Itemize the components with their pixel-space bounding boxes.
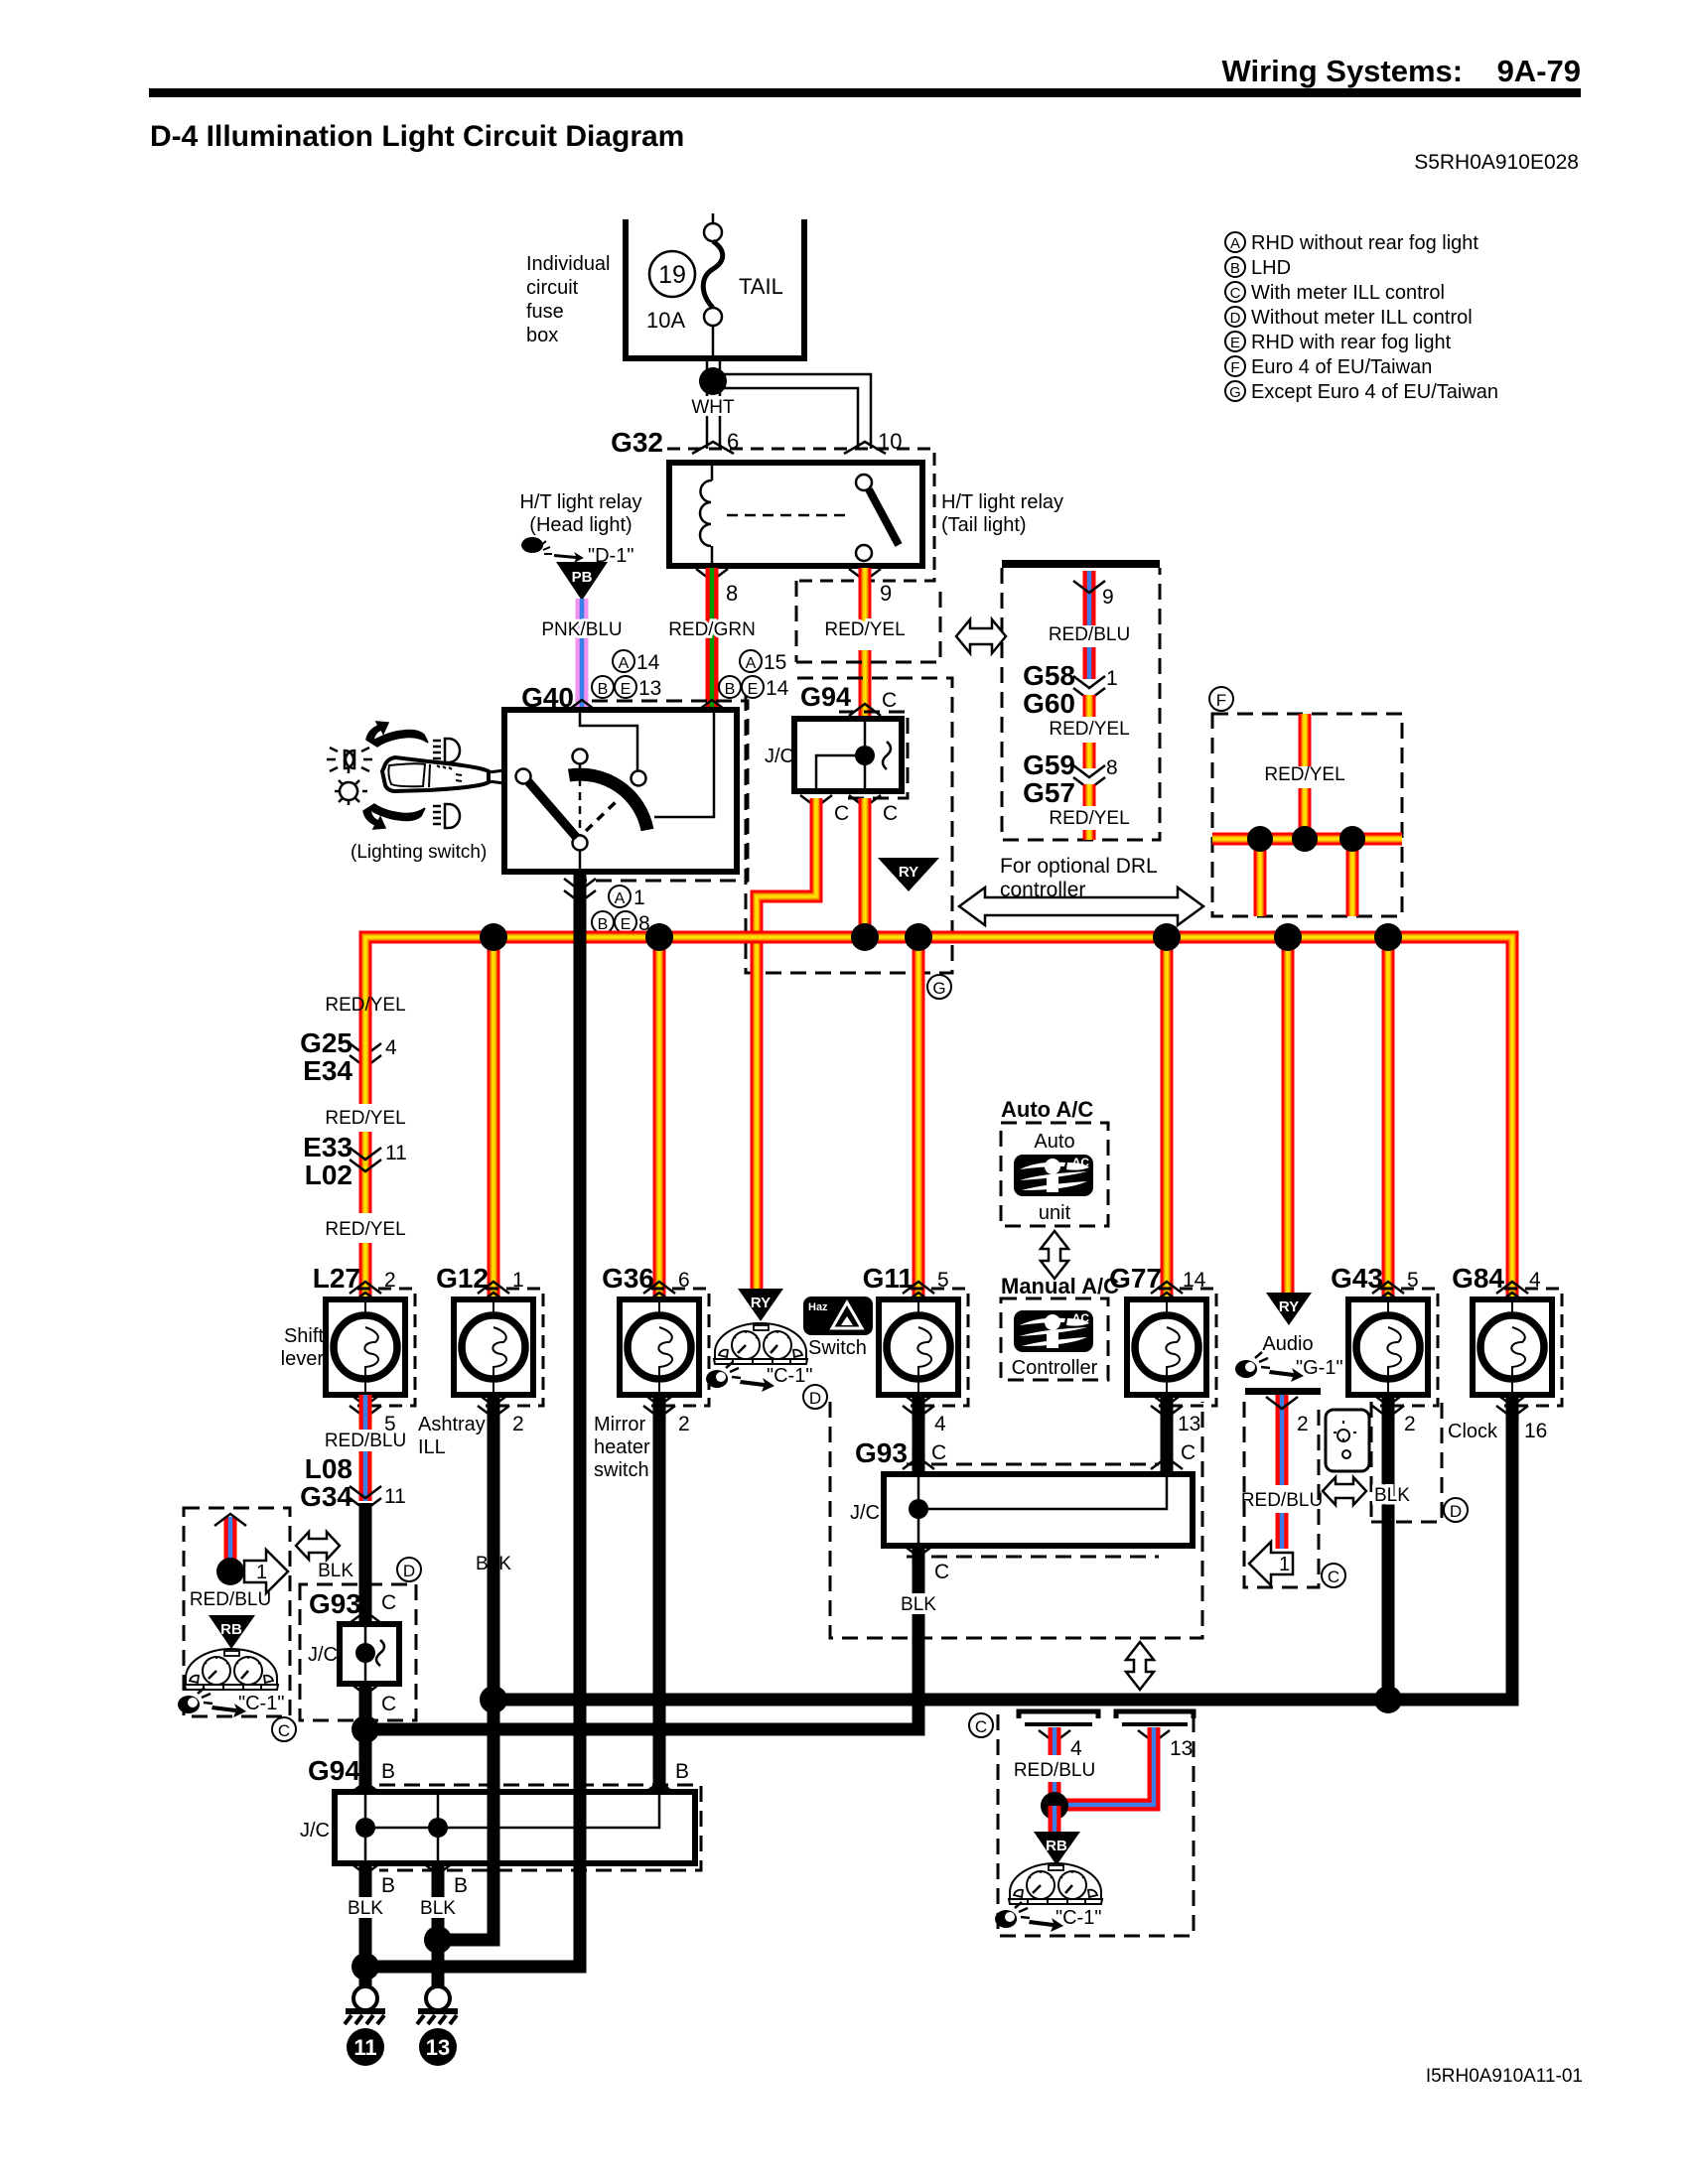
svg-text:E: E <box>1230 335 1240 351</box>
svg-text:13: 13 <box>638 677 661 700</box>
RY triangle meter feed <box>738 1289 783 1321</box>
svg-text:"C-1": "C-1" <box>1055 1907 1101 1929</box>
bus drop to G43 <box>1382 937 1395 1300</box>
svg-text:RED/BLU: RED/BLU <box>325 1431 406 1451</box>
svg-text:RHD without rear fog light: RHD without rear fog light <box>1251 232 1478 254</box>
ground number 13 <box>419 2028 457 2066</box>
svg-text:Manual A/C: Manual A/C <box>1001 1274 1119 1298</box>
wire BLK below G36 into G94 J/C <box>653 1395 666 1795</box>
svg-text:I5RH0A910A11-01: I5RH0A910A11-01 <box>1426 2066 1583 2087</box>
headlight icon top <box>433 739 460 762</box>
svg-text:RY: RY <box>751 1295 771 1311</box>
svg-text:RB: RB <box>220 1621 242 1638</box>
sun icon <box>335 768 367 805</box>
svg-text:RED/BLU: RED/BLU <box>190 1589 271 1610</box>
svg-text:16: 16 <box>1524 1420 1547 1442</box>
arrow relay area to DRL <box>956 619 1006 653</box>
junction dot WHT node <box>699 367 727 395</box>
bus 2 dot <box>352 1715 379 1743</box>
BLK label <box>897 1593 941 1614</box>
svg-text:G93: G93 <box>855 1437 908 1468</box>
G40 contact bottom <box>573 836 588 851</box>
svg-text:RED/YEL: RED/YEL <box>1049 719 1129 740</box>
svg-text:E34: E34 <box>303 1055 352 1086</box>
svg-text:C: C <box>1181 1441 1196 1464</box>
svg-text:H/T light relay: H/T light relay <box>519 491 641 513</box>
wire BLK G12 crossing G94 J/C <box>488 1786 500 1869</box>
svg-text:LHD: LHD <box>1251 257 1291 279</box>
svg-text:11: 11 <box>353 2035 376 2060</box>
svg-text:G32: G32 <box>611 427 663 458</box>
G40 contact top <box>573 750 588 764</box>
BLK label right <box>416 1897 461 1918</box>
svg-text:RB: RB <box>1046 1838 1067 1854</box>
svg-text:"G-1": "G-1" <box>1296 1357 1343 1379</box>
wire BLK below G77 <box>1161 1395 1174 1477</box>
svg-text:Euro 4 of EU/Taiwan: Euro 4 of EU/Taiwan <box>1251 356 1432 378</box>
connector variant labels A15 B E14 <box>740 650 762 672</box>
svg-text:RED/YEL: RED/YEL <box>1049 808 1129 829</box>
svg-text:Switch: Switch <box>808 1337 867 1359</box>
G94 bottom output chevrons <box>350 1862 381 1874</box>
svg-text:14: 14 <box>766 677 789 700</box>
svg-text:4: 4 <box>934 1413 946 1435</box>
svg-text:Shift: Shift <box>284 1325 324 1347</box>
junction dot G12/G94 <box>424 1926 452 1954</box>
svg-text:1: 1 <box>1106 667 1118 690</box>
wire BLK below G84 to bus corner <box>1489 1395 1512 1700</box>
svg-text:BLK: BLK <box>348 1898 383 1919</box>
svg-text:PNK/BLU: PNK/BLU <box>541 619 622 640</box>
G93 left output chevron <box>350 1683 381 1695</box>
svg-text:L27: L27 <box>313 1263 360 1294</box>
svg-text:unit: unit <box>1039 1202 1071 1224</box>
ground symbol 11 <box>345 1986 385 2024</box>
svg-text:E: E <box>621 681 632 698</box>
svg-text:G59: G59 <box>1023 750 1075 780</box>
svg-text:B: B <box>454 1874 468 1897</box>
circled D node <box>397 1558 421 1581</box>
svg-text:"C-1": "C-1" <box>767 1365 812 1387</box>
bus wire <box>365 937 1512 1299</box>
top arrow <box>366 722 428 747</box>
svg-text:14: 14 <box>636 651 660 674</box>
svg-text:switch: switch <box>594 1459 649 1481</box>
ground symbol 13 <box>417 1986 458 2024</box>
ground number 11 <box>347 2028 384 2066</box>
G93 left dashed box <box>300 1584 416 1720</box>
svg-text:A: A <box>1230 235 1240 252</box>
svg-text:8: 8 <box>726 581 738 606</box>
svg-text:19: 19 <box>658 261 686 289</box>
pin 6 <box>692 442 734 454</box>
svg-text:RHD with rear fog light: RHD with rear fog light <box>1251 332 1452 353</box>
G94 J/C solid box <box>794 719 902 791</box>
G40 connector chevrons <box>566 700 598 712</box>
svg-text:C: C <box>934 1561 949 1583</box>
svg-text:C: C <box>975 1717 987 1736</box>
svg-text:box: box <box>526 325 558 346</box>
circled C node <box>1322 1564 1345 1587</box>
G94 internal wires <box>816 719 865 791</box>
svg-text:G60: G60 <box>1023 688 1075 719</box>
hazard switch icon <box>803 1297 873 1335</box>
vertical arrow <box>1041 1231 1068 1279</box>
svg-text:C: C <box>931 1441 946 1464</box>
svg-text:RED/BLU: RED/BLU <box>1049 624 1130 645</box>
svg-text:J/C: J/C <box>850 1502 880 1524</box>
wire BLK L08 down to G93 <box>359 1503 372 1624</box>
G40 track arc <box>569 774 647 830</box>
fuse number circle 19 <box>649 251 695 297</box>
G94 bottom J/C solid box <box>335 1792 695 1863</box>
lighting switch stalk icon <box>327 722 504 829</box>
BLK label G12 wire <box>472 1553 516 1573</box>
svg-text:For optional DRL: For optional DRL <box>1000 855 1158 878</box>
svg-text:L08: L08 <box>305 1453 352 1484</box>
svg-text:C: C <box>882 689 897 712</box>
DRL thick top bar <box>1002 560 1160 568</box>
svg-text:8: 8 <box>1106 756 1118 779</box>
svg-text:F: F <box>1230 359 1239 376</box>
bus drop to G12 <box>488 937 500 1299</box>
eye symbol C-1 <box>706 1362 774 1392</box>
legend G <box>1225 381 1245 401</box>
svg-text:2: 2 <box>678 1413 690 1435</box>
svg-text:C: C <box>381 1591 396 1614</box>
G40 output chevrons <box>564 879 596 890</box>
bus 1 black <box>493 1694 1512 1706</box>
svg-text:J/C: J/C <box>300 1820 330 1842</box>
svg-text:ILL: ILL <box>418 1436 446 1458</box>
svg-text:Clock: Clock <box>1448 1421 1498 1442</box>
G40 internal wiring <box>580 713 637 770</box>
G94 dashed box <box>839 712 908 798</box>
wire BLK G94 right output to ground <box>432 1863 445 1986</box>
connector variant labels B E8 <box>592 911 614 933</box>
svg-text:G43: G43 <box>1331 1263 1383 1294</box>
G93 mid dashed offsets <box>907 1463 1159 1466</box>
G94 bottom internal wires <box>365 1792 659 1863</box>
wire G94 left output jog <box>757 798 816 1289</box>
svg-text:(Head light): (Head light) <box>529 514 632 536</box>
svg-text:Without meter ILL control: Without meter ILL control <box>1251 307 1473 329</box>
wire segment into L27 <box>359 1243 372 1299</box>
svg-text:BLK: BLK <box>901 1594 936 1615</box>
svg-text:J/C: J/C <box>308 1644 338 1666</box>
svg-text:C: C <box>1328 1568 1339 1586</box>
svg-text:S5RH0A910E028: S5RH0A910E028 <box>1414 151 1579 174</box>
pin 10 <box>844 442 886 454</box>
svg-text:G93: G93 <box>309 1588 361 1619</box>
svg-text:E: E <box>621 916 632 933</box>
F junction dots <box>1247 826 1273 852</box>
svg-text:2: 2 <box>1297 1413 1309 1435</box>
svg-text:RED/BLU: RED/BLU <box>1241 1490 1323 1511</box>
svg-text:A: A <box>746 655 757 672</box>
wire BLK below G12 <box>488 1395 500 1940</box>
svg-text:Auto: Auto <box>1034 1131 1074 1153</box>
parking light icon <box>327 748 372 771</box>
svg-text:A: A <box>615 890 626 907</box>
svg-text:1: 1 <box>256 1562 267 1583</box>
instrument cluster icon <box>714 1323 807 1364</box>
legend B <box>1225 257 1245 277</box>
dashed box around wire 9 <box>796 581 940 662</box>
meter C dashed box <box>184 1508 290 1716</box>
wire into G59 G57 <box>1083 743 1096 768</box>
svg-text:4: 4 <box>1070 1737 1082 1760</box>
wire PNK/BLU <box>576 599 589 717</box>
junction dot <box>216 1558 244 1585</box>
svg-text:2: 2 <box>1404 1413 1416 1435</box>
G40 wiper <box>526 779 577 838</box>
junction dot G40/G94 <box>352 1953 379 1980</box>
RB triangle <box>1034 1832 1080 1865</box>
G94 bottom junction dots <box>355 1818 375 1838</box>
svg-text:(Tail light): (Tail light) <box>941 514 1027 536</box>
svg-text:C: C <box>834 802 849 825</box>
svg-text:9: 9 <box>1102 586 1114 609</box>
wire to RB <box>1049 1806 1061 1834</box>
wire BLK G12 drop corner <box>438 1395 493 1940</box>
svg-text:G84: G84 <box>1452 1263 1504 1294</box>
svg-text:D: D <box>1230 310 1241 327</box>
svg-text:fuse: fuse <box>526 301 564 323</box>
svg-text:G94: G94 <box>800 682 851 712</box>
eye symbol C-1 <box>178 1688 246 1717</box>
eye symbol G-1 <box>1235 1352 1304 1382</box>
wire segment <box>359 1132 372 1213</box>
G93 mid output chevron <box>903 1545 934 1557</box>
legend A <box>1225 232 1498 403</box>
svg-text:B: B <box>1230 260 1240 277</box>
svg-text:G11: G11 <box>863 1263 914 1294</box>
svg-text:BLK: BLK <box>318 1561 353 1581</box>
svg-text:1: 1 <box>633 887 645 909</box>
circled D node <box>1444 1498 1468 1522</box>
svg-text:Except Euro 4 of EU/Taiwan: Except Euro 4 of EU/Taiwan <box>1251 381 1498 403</box>
stalk body <box>382 757 489 791</box>
svg-text:B: B <box>725 681 736 698</box>
relay switch <box>856 475 872 490</box>
F drop wires <box>1254 839 1267 916</box>
audio bottom bar <box>1245 1388 1321 1395</box>
circled F node <box>1209 687 1233 711</box>
G(G) variant dashed box <box>746 678 952 973</box>
wire RED/BLU from audio <box>1276 1395 1289 1485</box>
svg-text:11: 11 <box>384 1485 406 1508</box>
vertical arrow between box and bus <box>1126 1642 1154 1690</box>
G93 left junction dot <box>355 1643 375 1663</box>
eye symbol D-1 <box>522 538 633 567</box>
svg-text:2: 2 <box>512 1413 524 1435</box>
svg-text:15: 15 <box>764 651 786 674</box>
svg-text:lever: lever <box>281 1348 325 1370</box>
BLK label left <box>344 1897 388 1918</box>
svg-text:BLK: BLK <box>420 1898 456 1919</box>
svg-text:G: G <box>1229 384 1241 401</box>
F dashed box <box>1212 714 1402 916</box>
meter C dashed box <box>998 1714 1194 1936</box>
svg-text:B: B <box>598 681 609 698</box>
svg-text:WHT: WHT <box>691 397 735 418</box>
svg-text:D: D <box>403 1562 415 1580</box>
wire BLK G40 switch down <box>365 872 580 1967</box>
connector variant labels A1 <box>609 886 631 907</box>
wire BLK below G43 <box>1382 1395 1395 1700</box>
circled D node <box>803 1385 827 1409</box>
svg-text:E: E <box>748 681 759 698</box>
wire double line to relay pin 6 <box>706 358 709 449</box>
svg-text:Controller: Controller <box>1012 1357 1098 1379</box>
bus drop to G36 <box>653 937 666 1299</box>
relay actuation dashed link <box>727 514 849 517</box>
G40 contact right <box>632 771 646 786</box>
wire BLK below G11 <box>913 1395 925 1477</box>
wire into G58 G60 <box>1083 647 1096 679</box>
G94 internal junction dot <box>855 746 875 765</box>
G40 bottom lead <box>579 850 582 872</box>
bus drop to G11 <box>913 937 925 1300</box>
connector bar 13 <box>1116 1711 1194 1718</box>
svg-text:RED/GRN: RED/GRN <box>668 619 756 640</box>
bus drop to audio RY <box>1282 937 1295 1293</box>
svg-text:13: 13 <box>1178 1413 1200 1435</box>
wire BLK G40 crossing G94 J/C <box>574 1786 587 1869</box>
instrument cluster icon <box>1009 1863 1102 1904</box>
svg-text:13: 13 <box>1170 1737 1193 1760</box>
bus junction dots <box>480 923 507 951</box>
svg-text:G25: G25 <box>300 1027 352 1058</box>
G94 bottom dashed offsets <box>379 1785 701 1870</box>
RY triangle to meter <box>878 858 939 891</box>
svg-text:RED/YEL: RED/YEL <box>824 619 905 640</box>
svg-text:RED/YEL: RED/YEL <box>325 995 405 1016</box>
G93 mid J/C solid box <box>884 1474 1193 1546</box>
legend D <box>1225 307 1245 327</box>
legend C <box>1225 282 1245 302</box>
G93 left internal wire <box>364 1624 367 1684</box>
wire RED/BLU left <box>1049 1727 1061 1755</box>
svg-text:RY: RY <box>899 864 918 881</box>
big D variant dashed box around G93 mid <box>830 1402 1202 1638</box>
instrument cluster icon <box>185 1649 278 1690</box>
bottom arrow <box>363 804 425 829</box>
arrow left-right meter box <box>296 1532 340 1560</box>
svg-text:heater: heater <box>594 1436 650 1458</box>
svg-text:G57: G57 <box>1023 777 1075 808</box>
svg-text:A: A <box>619 655 630 672</box>
svg-text:9: 9 <box>880 581 892 606</box>
svg-text:C: C <box>883 802 898 825</box>
eye symbol C-1 <box>995 1902 1063 1932</box>
svg-text:With meter ILL control: With meter ILL control <box>1251 282 1445 304</box>
G93 mid junction dot <box>909 1499 928 1519</box>
svg-text:G36: G36 <box>602 1263 654 1294</box>
svg-text:11: 11 <box>385 1142 407 1164</box>
PB triangle (from headlight circuit) <box>556 562 608 601</box>
wire RED/GRN pin 8 <box>696 569 728 581</box>
F horizontal wire <box>1212 833 1402 846</box>
G93 mid internal wires <box>918 1474 1167 1546</box>
svg-text:G12: G12 <box>436 1263 489 1294</box>
svg-text:F: F <box>1216 691 1226 710</box>
svg-text:H/T light relay: H/T light relay <box>941 491 1063 513</box>
svg-text:C: C <box>1230 285 1241 302</box>
wire G94 right output to bus <box>859 798 872 937</box>
svg-text:(Lighting switch): (Lighting switch) <box>351 842 487 863</box>
svg-text:G94: G94 <box>308 1755 360 1786</box>
svg-text:G77: G77 <box>1109 1263 1162 1294</box>
svg-text:1: 1 <box>1279 1554 1290 1575</box>
G94 output chevrons <box>800 795 832 807</box>
svg-text:D: D <box>1450 1502 1462 1521</box>
relay dashed box <box>667 449 934 581</box>
RY triangle audio feed <box>1266 1293 1312 1325</box>
F wire top <box>1299 714 1312 766</box>
rocker switch icon <box>1326 1410 1369 1471</box>
svg-text:B: B <box>598 916 609 933</box>
svg-text:D: D <box>809 1389 821 1408</box>
svg-text:RED/YEL: RED/YEL <box>325 1108 405 1129</box>
F wire lower <box>1299 788 1312 839</box>
wire BLK G93 left to G94 <box>359 1684 372 1792</box>
wire RED/BLU into DRL <box>1083 571 1096 625</box>
RB triangle <box>209 1615 255 1649</box>
svg-text:C: C <box>278 1721 290 1740</box>
svg-text:Audio: Audio <box>1262 1333 1313 1355</box>
svg-text:RY: RY <box>1279 1298 1299 1315</box>
svg-text:TAIL: TAIL <box>739 274 783 299</box>
wire loop junction to relay pin 10 <box>715 374 871 449</box>
headlight icon bottom <box>433 804 460 828</box>
DRL dashed box <box>1002 568 1160 840</box>
G40 solid box <box>504 710 737 872</box>
big arrow DRL to bus area <box>959 887 1203 925</box>
svg-text:4: 4 <box>385 1036 397 1059</box>
D variant dashed box for G43 BLK <box>1371 1402 1442 1522</box>
svg-text:Individual: Individual <box>526 253 611 275</box>
bus 1 dots <box>480 1686 507 1713</box>
svg-text:E33: E33 <box>303 1132 352 1162</box>
svg-text:B: B <box>381 1874 395 1897</box>
svg-text:RED/YEL: RED/YEL <box>325 1219 405 1240</box>
fuse box outline <box>626 219 804 358</box>
svg-text:C: C <box>381 1693 396 1715</box>
svg-text:10A: 10A <box>646 308 685 333</box>
wire BLK G93 mid to bus2 <box>365 1546 918 1729</box>
wire RED/BLU right with corner <box>1055 1727 1154 1805</box>
junction dot <box>1041 1792 1068 1820</box>
G40 dashed pole line <box>579 764 582 835</box>
wire fuse to box bottom <box>712 326 715 358</box>
WHT label <box>689 396 738 416</box>
arrow 1 left <box>1249 1542 1293 1585</box>
svg-text:RED/BLU: RED/BLU <box>1014 1760 1095 1781</box>
arrow 1 right <box>244 1550 288 1593</box>
svg-text:BLK: BLK <box>1374 1485 1410 1506</box>
svg-text:D-4 Illumination Light Circuit: D-4 Illumination Light Circuit Diagram <box>150 120 684 153</box>
svg-text:Mirror: Mirror <box>594 1414 646 1435</box>
svg-text:Ashtray: Ashtray <box>418 1414 486 1435</box>
svg-text:Auto A/C: Auto A/C <box>1001 1097 1093 1122</box>
circled C node <box>969 1713 993 1737</box>
legend F <box>1225 356 1245 376</box>
svg-text:13: 13 <box>426 2035 450 2060</box>
wire RED/YEL pin 9 <box>849 569 881 581</box>
svg-text:G34: G34 <box>300 1481 352 1512</box>
